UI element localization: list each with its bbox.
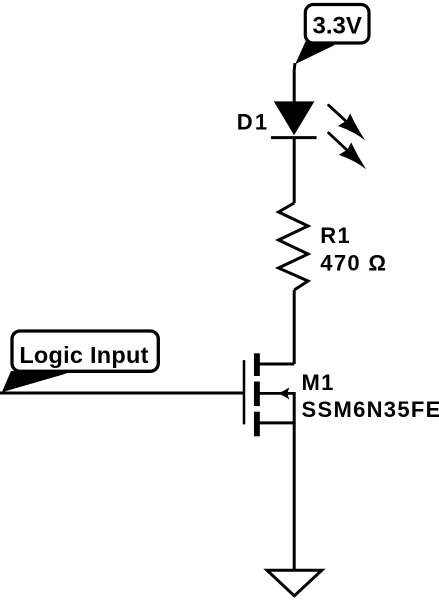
- LED light arrow 2: [329, 133, 367, 169]
- mosfet M1 channel bar bottom: [254, 412, 260, 437]
- LED D1 cathode bar: [271, 136, 317, 139]
- wire resistor to MOSFET drain: [293, 290, 296, 364]
- svg-text:SSM6N35FE: SSM6N35FE: [302, 397, 439, 422]
- power net tail: [295, 42, 335, 65]
- mosfet M1 channel bar middle: [254, 382, 260, 407]
- power net 3.3V box: [305, 5, 369, 44]
- wire source to ground: [293, 423, 296, 570]
- LED light arrow 1: [329, 105, 366, 140]
- resistor R1 zigzag: [279, 203, 309, 290]
- wire LED cathode to resistor: [293, 138, 296, 203]
- gate input wire: [0, 392, 244, 395]
- wire 3.3V to LED anode: [293, 63, 297, 103]
- ground symbol: [267, 570, 322, 596]
- svg-text:Logic Input: Logic Input: [19, 342, 148, 368]
- logic input box: [12, 331, 158, 371]
- mosfet M1 body arrow: [277, 387, 289, 399]
- logic input tail: [2, 371, 68, 392]
- mosfet M1 gate plate: [243, 360, 246, 424]
- svg-text:470 Ω: 470 Ω: [320, 251, 387, 276]
- svg-text:R1: R1: [320, 223, 351, 248]
- mosfet M1 channel bar top: [254, 353, 260, 376]
- wire body/source junction vertical: [293, 392, 296, 424]
- mosfet M1 source horizontal: [256, 421, 295, 424]
- LED D1 triangle (anode): [274, 101, 315, 135]
- mosfet M1 body line: [258, 392, 294, 395]
- svg-text:D1: D1: [237, 109, 270, 134]
- svg-text:3.3V: 3.3V: [313, 13, 362, 40]
- svg-text:M1: M1: [302, 370, 335, 395]
- mosfet M1 drain horizontal: [256, 363, 295, 366]
